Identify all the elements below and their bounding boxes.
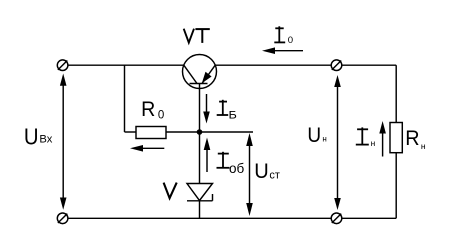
svg-text:0: 0: [158, 110, 164, 122]
svg-text:н: н: [421, 141, 426, 151]
svg-text:U: U: [307, 124, 321, 147]
svg-text:U: U: [254, 159, 269, 183]
svg-text:R: R: [405, 126, 419, 150]
svg-text:0: 0: [288, 35, 293, 46]
svg-text:ст: ст: [269, 170, 280, 182]
svg-text:Б: Б: [229, 108, 237, 121]
svg-text:н: н: [371, 138, 376, 148]
svg-text:н: н: [322, 135, 326, 144]
svg-text:об: об: [229, 161, 245, 176]
svg-text:U: U: [24, 123, 39, 150]
svg-text:R: R: [141, 97, 155, 121]
svg-text:Вх: Вх: [39, 134, 52, 146]
